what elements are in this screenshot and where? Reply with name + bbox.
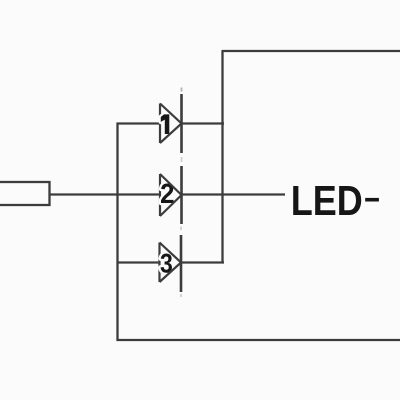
diode D1 cathode bar: [180, 94, 183, 153]
diode D1 cathode-pointing edges: [160, 104, 182, 144]
wire diode 1 cathode to right bus: [181, 122, 224, 124]
resistor R1 (input component box, cut off at left edge): [0, 182, 50, 205]
label LED- (net name): [293, 186, 361, 215]
faint dash continuation above D1: [181, 88, 183, 92]
wire top rail to right edge: [222, 50, 400, 52]
label 3 (diode 3 number, white halo): [161, 254, 172, 273]
wire left vertical bus: [116, 123, 118, 342]
diode D3 anode-side edge: [158, 243, 160, 283]
faint dash continuation between D1 and D2: [181, 157, 183, 162]
diode D2 cathode-pointing edges: [160, 174, 182, 216]
diode D2 cathode bar: [180, 166, 183, 224]
diode D3 cathode bar: [180, 235, 183, 292]
label 1 (diode 1 number, white halo): [161, 114, 170, 134]
wire branch to diode 1 anode: [117, 122, 161, 124]
wire diode 2 cathode to LED- terminal: [181, 193, 285, 195]
label minus sign after LED: [365, 198, 379, 202]
diode D2 anode-side edge: [159, 174, 161, 216]
label 2 (diode 2 number, white halo): [161, 184, 173, 203]
wire from R1 to diode 2 anode: [50, 193, 161, 195]
wire bottom rail to right edge: [117, 339, 400, 341]
diode D1 anode-side edge: [159, 104, 161, 144]
wire branch to diode 3 anode: [117, 261, 161, 263]
wire diode 3 cathode to right bus: [181, 261, 224, 263]
diode D3 cathode-pointing edges: [160, 243, 182, 283]
faint dash continuation between D2 and D3: [180, 227, 182, 231]
faint dash continuation below D3: [180, 294, 182, 297]
wire right vertical bus: [221, 51, 223, 264]
